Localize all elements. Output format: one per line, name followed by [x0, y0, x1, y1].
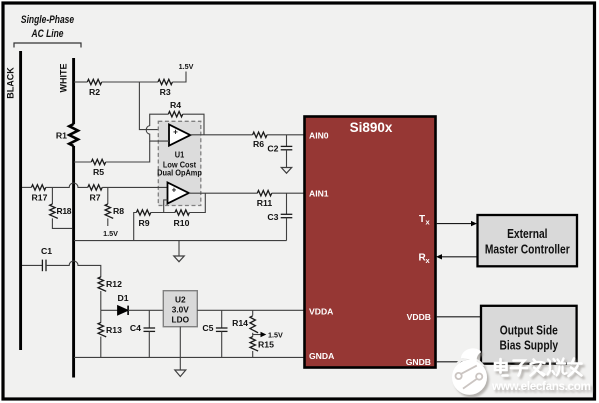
- wire U1B output to R11: [189, 192, 258, 194]
- wire BLACK to R17: [22, 186, 31, 188]
- wire R3 to 1.5V: [172, 72, 186, 83]
- svg-text:C1: C1: [41, 246, 52, 256]
- capacitor C5: [202, 310, 227, 357]
- resistor R10 feedback: [174, 193, 206, 228]
- svg-text:AIN0: AIN0: [309, 131, 329, 141]
- resistor R2: [87, 79, 101, 97]
- resistor R18: [50, 187, 73, 228]
- svg-text:1.5V: 1.5V: [268, 330, 283, 339]
- svg-text:GNDA: GNDA: [309, 351, 334, 361]
- wire R2 to R3 with junction node: [102, 81, 158, 83]
- svg-text:www.elecfans.com: www.elecfans.com: [491, 380, 591, 393]
- svg-text:Dual OpAmp: Dual OpAmp: [157, 168, 202, 178]
- svg-text:BLACK: BLACK: [6, 67, 16, 99]
- wire GNDB to Output Side Bias Supply: [436, 361, 481, 363]
- wire Rx from External Master Controller with arrow: [436, 254, 478, 259]
- wire WHITE to R5: [74, 161, 91, 163]
- resistor R6: [253, 132, 267, 149]
- svg-text:R14: R14: [232, 318, 248, 328]
- resistor R4 feedback: [168, 100, 182, 117]
- resistor R15: [250, 337, 274, 358]
- resistor R8 with 1.5V node: [103, 187, 124, 238]
- resistor R11: [257, 191, 273, 209]
- svg-text:Bias Supply: Bias Supply: [499, 340, 558, 353]
- pin GNDB: [406, 357, 431, 367]
- wire VDDB to Output Side Bias Supply: [436, 316, 481, 318]
- wire junction down to op-amp U1A + input: [139, 82, 169, 130]
- svg-text:LDO: LDO: [172, 315, 190, 325]
- pin Tx: [419, 214, 431, 227]
- svg-text:R17: R17: [32, 193, 48, 203]
- op-amp U1A triangle: [169, 125, 190, 146]
- resistor R14: [232, 310, 258, 333]
- op-amp package U1 dashed box: [157, 121, 202, 205]
- resistor R17: [31, 185, 47, 203]
- svg-text:R10: R10: [174, 218, 190, 228]
- svg-text:R11: R11: [257, 198, 273, 208]
- wire R17 to R7 with hop over WHITE line: [46, 183, 88, 187]
- svg-text:AIN1: AIN1: [309, 189, 329, 199]
- watermark text dianzifashaoyou: [495, 359, 582, 377]
- op-amp U1B triangle: [168, 182, 189, 203]
- svg-text:C3: C3: [267, 212, 278, 222]
- wire U2 ground pin: [179, 327, 181, 358]
- resistor R5: [91, 159, 105, 177]
- svg-text:R5: R5: [93, 167, 104, 177]
- bracket under AC Line label: [14, 43, 81, 48]
- svg-text:U1: U1: [175, 150, 185, 160]
- wire R4 right leg to output: [183, 114, 204, 135]
- svg-text:R2: R2: [89, 87, 100, 97]
- block Output Side Bias Supply: [481, 306, 577, 364]
- svg-text:Single-Phase: Single-Phase: [21, 14, 75, 26]
- capacitor C1: [22, 246, 52, 271]
- wire U1A output to R6: [190, 134, 252, 136]
- svg-text:AC Line: AC Line: [31, 28, 64, 40]
- resistor R12: [98, 277, 122, 310]
- svg-text:D1: D1: [117, 293, 128, 303]
- capacitor C2: [267, 135, 292, 154]
- svg-text:R9: R9: [138, 218, 149, 228]
- svg-text:C4: C4: [130, 323, 141, 333]
- pin Rx: [419, 253, 431, 266]
- svg-text:U2: U2: [175, 295, 186, 305]
- svg-text:Output Side: Output Side: [500, 325, 558, 338]
- resistor R3: [158, 79, 172, 97]
- svg-text:3.0V: 3.0V: [172, 305, 190, 315]
- wire middle ground rail: [74, 240, 287, 242]
- wire BLACK AC line: [19, 51, 22, 350]
- wire R9 to R10 junction: [151, 212, 175, 214]
- svg-text:T: T: [419, 214, 425, 225]
- resistor R13: [98, 310, 122, 357]
- svg-text:1.5V: 1.5V: [179, 62, 194, 71]
- svg-text:+: +: [172, 185, 177, 194]
- regulator U2 3.0V LDO: [163, 291, 197, 327]
- svg-text:R1: R1: [56, 131, 67, 141]
- diode D1: [101, 293, 164, 315]
- ground below bottom rail: [175, 357, 186, 376]
- wire WHITE AC line: [72, 58, 75, 378]
- capacitor C3: [267, 193, 292, 240]
- wire C1 to R12 with hop over WHITE line: [46, 261, 101, 277]
- svg-text:R18: R18: [57, 206, 72, 216]
- resistor R1: [56, 124, 78, 146]
- wire Tx to External Master Controller with arrow: [436, 221, 477, 226]
- svg-text:R3: R3: [160, 87, 171, 97]
- node 1.5V tap with arrow: [253, 330, 283, 339]
- label BLACK: [6, 67, 16, 99]
- label WHITE: [59, 64, 69, 93]
- svg-text:1.5V: 1.5V: [103, 229, 118, 238]
- node 1.5V (top): [179, 62, 194, 71]
- svg-text:VDDA: VDDA: [309, 307, 333, 317]
- resistor R7: [88, 185, 102, 203]
- wire R7 to op-amp U1B + input: [102, 186, 167, 188]
- wire R11 to AIN1 pin: [272, 192, 305, 194]
- ground below C2: [281, 150, 291, 173]
- watermark url www.elecfans.com: [491, 380, 591, 393]
- svg-text:Master Controller: Master Controller: [485, 244, 570, 257]
- svg-text:R7: R7: [89, 193, 100, 203]
- block External Master Controller: [478, 215, 578, 266]
- svg-text:WHITE: WHITE: [59, 64, 69, 93]
- capacitor C4: [130, 310, 155, 357]
- wire U2 output to VDDA pin: [197, 309, 304, 311]
- svg-text:Si890x: Si890x: [350, 120, 393, 135]
- watermark elecfans logo: [452, 348, 487, 394]
- svg-text:VDDB: VDDB: [407, 312, 431, 322]
- svg-text:External: External: [507, 228, 547, 241]
- resistor R9: [134, 210, 151, 241]
- pin VDDB: [407, 312, 431, 322]
- svg-text:R6: R6: [253, 139, 264, 149]
- wire R6 to AIN0 pin: [267, 134, 305, 136]
- pin AIN1: [309, 189, 329, 199]
- ground on middle rail: [174, 241, 184, 262]
- svg-text:C5: C5: [202, 323, 213, 333]
- svg-text:C2: C2: [267, 144, 278, 154]
- svg-text:R8: R8: [113, 206, 124, 216]
- IC Si890x body: [305, 117, 436, 368]
- svg-text:+: +: [173, 128, 178, 137]
- svg-text:GNDB: GNDB: [406, 357, 431, 367]
- label Single-Phase AC Line: [21, 14, 75, 40]
- pin GNDA: [309, 351, 334, 361]
- wire bottom ground rail to GNDA: [74, 356, 305, 358]
- svg-text:R4: R4: [170, 100, 181, 110]
- pin VDDA: [309, 307, 333, 317]
- svg-text:R15: R15: [258, 340, 274, 350]
- wire R4 left leg with hop over + input: [146, 114, 169, 141]
- wire R5 to inverting input vertical: [106, 141, 150, 162]
- svg-text:R12: R12: [106, 279, 122, 289]
- pin AIN0: [309, 131, 329, 141]
- wire WHITE to R2: [74, 81, 87, 83]
- wire U1B inverting input to R9/R10: [164, 200, 168, 213]
- svg-text:R13: R13: [106, 325, 122, 335]
